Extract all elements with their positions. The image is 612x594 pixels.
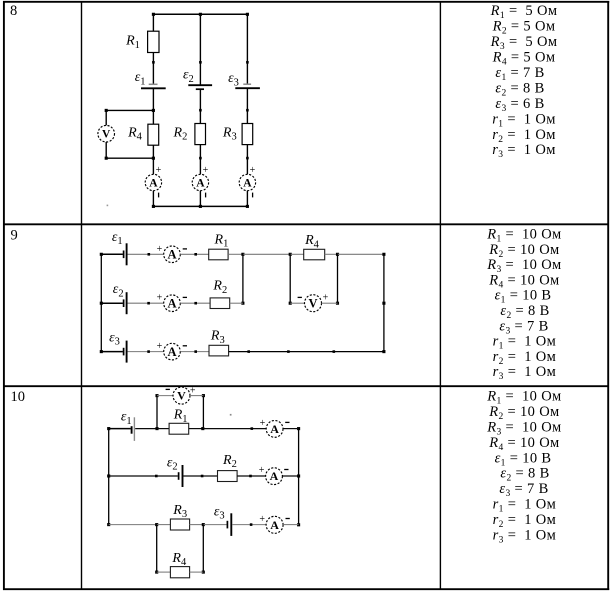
battery e2 short plate row10: [178, 472, 180, 480]
wire e2 to ammeter A2 row9: [128, 302, 164, 304]
stray dot row10: [230, 414, 232, 416]
wire voltmeter right lead row9: [322, 302, 338, 304]
wire voltmeter stub right row9: [337, 254, 339, 303]
battery e3 short plate row9: [123, 348, 125, 356]
resistor R4 row9: [304, 249, 325, 259]
wire voltmeter left lead row9: [290, 302, 304, 304]
pin e1-A1 row9: [148, 253, 151, 256]
battery e1 long plate row9: [126, 243, 128, 265]
node top-left row8: [152, 13, 155, 16]
wire A3 to right rail row10: [283, 524, 299, 526]
ammeter A2 minus tick: [205, 193, 207, 198]
node right rail mid row10: [297, 474, 300, 477]
node bottom-right row8: [246, 205, 249, 208]
node left rail mid row10: [107, 474, 110, 477]
node right rail bottom row9: [382, 350, 385, 353]
node R4 section left row9: [289, 253, 292, 256]
ammeter A1 row9: [164, 246, 181, 263]
ammeter A1 minus row10: [285, 421, 289, 423]
pin branch2 mid: [199, 109, 202, 112]
ammeter A3 row9: [164, 343, 181, 360]
wire R3 to right rail row9: [229, 351, 384, 353]
wire e2 to R2: [199, 89, 201, 123]
wire rail to battery e1 row10: [109, 428, 131, 430]
pin branch2 low: [199, 157, 202, 160]
svg-text:V: V: [177, 389, 186, 403]
wire e1 to node: [152, 88, 154, 110]
node voltmeter bottom junction: [152, 157, 155, 160]
wire e3 to ammeter A3 row10: [232, 524, 266, 526]
battery e1 short plate: [149, 83, 158, 85]
wire A2 to R2 row9: [180, 302, 210, 304]
wire voltmeter stub left row9: [289, 254, 291, 303]
pin branch3: [246, 61, 249, 64]
wire to right rail row9: [338, 253, 384, 255]
wire voltmeter top lead: [106, 109, 153, 111]
wire A1 to right rail row10: [283, 428, 299, 430]
node top-middle row8: [199, 13, 202, 16]
wire rail to battery e2 row10: [109, 475, 178, 477]
svg-text:+: +: [156, 165, 162, 176]
pin e2-A2 row9: [147, 302, 150, 305]
node left rail bottom row10: [107, 523, 110, 526]
svg-text:A: A: [270, 518, 279, 532]
svg-text:+: +: [157, 341, 163, 352]
node R4 right row10: [202, 571, 205, 574]
wire A2 to right rail row10: [282, 475, 298, 477]
wire node to R4: [152, 110, 154, 124]
ammeter A1 row10: [266, 421, 283, 438]
pin branch3 mid: [246, 109, 249, 112]
node junction bottom row9: [241, 302, 244, 305]
pin branch2: [199, 61, 202, 64]
svg-text:+: +: [260, 418, 266, 429]
resistor R1 row10: [169, 423, 189, 434]
node voltmeter top-left: [105, 109, 108, 112]
wire branch1 top: [152, 14, 154, 31]
wire e3 to ammeter A3 row9: [128, 351, 164, 353]
node left rail top row10: [107, 427, 110, 430]
node top-right row8: [246, 13, 249, 16]
wire junction to R1 row10: [157, 428, 169, 430]
resistor R1: [148, 31, 159, 52]
voltmeter minus row10: [166, 388, 170, 390]
wire A2 to bottom rail: [199, 191, 201, 207]
wire voltmeter right lead row10: [190, 395, 203, 397]
node voltmeter right row9: [336, 302, 339, 305]
wire junction down to row B: [242, 254, 244, 303]
node after R1 row9: [241, 253, 244, 256]
battery e3 long plate: [235, 87, 260, 89]
battery e1 long plate row10: [133, 417, 135, 441]
node R3 section left row10: [155, 523, 158, 526]
svg-text:+: +: [157, 293, 163, 304]
node R4 left row10: [155, 571, 158, 574]
node right rail top row10: [297, 427, 300, 430]
wire left rail row10: [108, 429, 110, 525]
wire e3 to R3: [246, 88, 248, 123]
wire voltmeter stub left row10: [156, 396, 158, 429]
resistor R1 row9: [209, 249, 228, 260]
ammeter A1 minus tick: [158, 193, 160, 198]
wire top rail row8: [152, 13, 249, 15]
pin A2-R2 row9: [194, 302, 197, 305]
wire R4 to node row10: [190, 571, 204, 573]
battery e2 long plate row9: [126, 292, 128, 314]
ammeter A3 minus row10: [286, 518, 290, 520]
wire voltmeter bottom lead: [106, 157, 153, 159]
pin e2-R2 row10: [201, 475, 204, 478]
wire A3 to bottom rail: [246, 191, 248, 207]
svg-text:+: +: [259, 465, 265, 476]
resistor R4 row10: [170, 567, 189, 578]
wire rail to battery e2 row9: [101, 302, 123, 304]
pin wire row9 c1: [247, 350, 250, 353]
battery e3 short plate: [243, 83, 251, 85]
pin branch1: [152, 61, 155, 64]
ammeter A2 row9: [164, 295, 181, 312]
svg-text:A: A: [167, 248, 176, 262]
ammeter A1 row8: [145, 174, 161, 190]
ammeter A3 row10: [266, 516, 283, 533]
svg-text:+: +: [250, 165, 256, 176]
wire to R4 row10: [157, 571, 171, 573]
wire voltmeter left bottom: [105, 142, 107, 158]
battery e2 long plate row10: [182, 465, 184, 487]
node voltmeter stub left top row10: [155, 394, 158, 397]
node left rail bottom row9: [100, 350, 103, 353]
ammeter A2 row10: [266, 468, 283, 485]
wire left rail row9: [100, 254, 102, 351]
wire rail to battery e1 row9: [101, 253, 123, 255]
node bottom-left row8: [152, 205, 155, 208]
resistor R2 row8: [195, 124, 206, 145]
node left rail top row9: [100, 253, 103, 256]
svg-text:A: A: [196, 177, 205, 189]
wire voltmeter left lead row10: [157, 395, 173, 397]
wire R4 to node: [152, 145, 154, 158]
svg-text:A: A: [270, 422, 279, 436]
wire rail to R3 section row10: [109, 524, 157, 526]
wire branch2 top: [199, 14, 201, 85]
svg-text:A: A: [243, 177, 252, 189]
pin R2-A2 row10: [249, 475, 252, 478]
pin branch3 low: [246, 157, 249, 160]
node left rail mid row9: [100, 302, 103, 305]
svg-text:V: V: [308, 296, 317, 310]
ammeter A3 minus row9: [183, 345, 187, 347]
battery e2 short plate: [196, 88, 204, 90]
resistor R2 row9: [210, 298, 230, 309]
svg-text:+: +: [203, 165, 209, 176]
resistor R3 row8: [242, 124, 253, 145]
wire R3 to ammeter A3: [246, 145, 248, 175]
battery e3 long plate row9: [126, 341, 128, 363]
voltmeter V row8: [98, 125, 115, 142]
battery e1 long plate: [141, 87, 166, 89]
battery e3 short plate row10: [226, 521, 228, 529]
ammeter A2 minus row10: [284, 469, 288, 471]
node right rail bottom row10: [297, 523, 300, 526]
wire R1 to junction row9: [228, 253, 243, 255]
wire e1 to ammeter A1 row9: [128, 253, 164, 255]
wire R2 to ammeter A2 row10: [237, 475, 266, 477]
wire A3 to R3 row9: [180, 351, 209, 353]
node voltmeter left row9: [289, 302, 292, 305]
pin A1-R1 row9: [194, 253, 197, 256]
node right rail top row9: [382, 253, 385, 256]
node voltmeter stub right top row10: [202, 394, 205, 397]
node right rail mid row9: [382, 302, 385, 305]
wire R1 to battery e1: [152, 53, 154, 85]
pin before A1 row10: [251, 427, 254, 430]
wire R4 stub right row10: [202, 525, 204, 573]
resistor R4 row8: [148, 124, 159, 145]
svg-text:A: A: [167, 345, 176, 359]
wire R4 to node row9: [325, 253, 338, 255]
wire bottom rail row8: [152, 205, 248, 207]
ammeter A2 minus row9: [183, 296, 187, 298]
svg-text:V: V: [102, 129, 111, 141]
wire junction to R4 section row9: [243, 253, 290, 255]
pin left row B row10: [155, 475, 158, 478]
wire to R4 row9: [290, 253, 304, 255]
pin e3-A3 row9: [147, 350, 150, 353]
pin wire row9 c2: [287, 350, 290, 353]
wire node to battery e3 row10: [203, 524, 226, 526]
battery e2 long plate: [188, 84, 212, 86]
wire e2 to R2 row10: [183, 475, 217, 477]
voltmeter V row10: [173, 387, 190, 404]
svg-text:8: 8: [10, 3, 17, 19]
node voltmeter bottom-left: [105, 157, 108, 160]
svg-text:9: 9: [11, 227, 18, 243]
node R3 section right row10: [202, 523, 205, 526]
wire right rail row10: [298, 429, 300, 525]
wire R2 to junction row9: [230, 302, 243, 304]
pin wire row9 c3: [333, 350, 336, 353]
stray dot row8: [107, 205, 109, 207]
wire to R3 row10: [157, 524, 171, 526]
wire node to ammeter A1: [152, 158, 154, 174]
battery e2 short plate row9: [123, 299, 125, 307]
node voltmeter top junction: [152, 109, 155, 112]
battery e1 short plate row9: [123, 251, 125, 259]
svg-text:10: 10: [11, 389, 26, 405]
resistor R2 row10: [218, 471, 238, 482]
battery e1 short plate row10: [131, 426, 133, 434]
svg-text:+: +: [190, 385, 196, 396]
battery e3 long plate row10: [230, 513, 232, 536]
ammeter A3 minus tick: [252, 193, 254, 198]
wire junction to ammeter A1 row10: [203, 428, 266, 430]
pin e3-A3 row10: [250, 523, 253, 526]
wire R2 to ammeter A2: [199, 145, 201, 175]
svg-text:A: A: [167, 296, 176, 310]
wire e1 to junction row10: [135, 428, 157, 430]
node bottom-middle row8: [199, 205, 202, 208]
wire right rail row9: [383, 254, 385, 351]
wire voltmeter stub right row10: [202, 396, 204, 429]
svg-text:+: +: [323, 292, 329, 303]
wire R4 stub left row10: [156, 525, 158, 573]
wire branch3 top: [246, 14, 248, 84]
node R1 right junction row10: [201, 427, 204, 430]
wire A1 to bottom rail: [152, 191, 154, 207]
svg-text:+: +: [157, 244, 163, 255]
svg-text:A: A: [149, 177, 158, 189]
resistor R3 row9: [209, 345, 229, 356]
node R1 left junction row10: [155, 427, 158, 430]
wire A1 to R1 row9: [180, 253, 208, 255]
node R4 section right row9: [336, 253, 339, 256]
pin A3-R3 row9: [194, 350, 197, 353]
ammeter A3 row8: [239, 174, 255, 190]
wire R1 to junction row10: [189, 428, 203, 430]
ammeter A2 row8: [192, 174, 208, 190]
voltmeter V row9: [305, 295, 322, 312]
svg-text:A: A: [270, 469, 279, 483]
svg-text:+: +: [259, 514, 265, 525]
wire rail to battery e3 row9: [101, 351, 123, 353]
ammeter A1 minus row9: [183, 248, 187, 250]
resistor R3 row10: [170, 519, 189, 530]
wire voltmeter left down: [105, 110, 107, 125]
voltmeter minus row9: [298, 296, 302, 298]
wire R3 to node row10: [190, 524, 204, 526]
